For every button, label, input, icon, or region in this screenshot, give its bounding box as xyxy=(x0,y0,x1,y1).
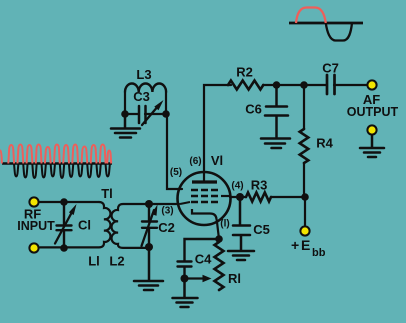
svg-text:L2: L2 xyxy=(109,254,124,269)
svg-text:R4: R4 xyxy=(316,136,333,151)
svg-text:C7: C7 xyxy=(322,61,339,76)
svg-text:(4): (4) xyxy=(231,181,243,192)
svg-text:(5): (5) xyxy=(170,167,182,178)
svg-text:Vl: Vl xyxy=(211,153,223,168)
svg-text:C6: C6 xyxy=(245,102,262,117)
svg-text:Tl: Tl xyxy=(101,186,113,201)
svg-text:C4: C4 xyxy=(195,252,212,267)
svg-text:bb: bb xyxy=(312,247,326,259)
svg-text:C5: C5 xyxy=(253,222,270,237)
svg-text:Cl: Cl xyxy=(78,218,91,233)
svg-text:INPUT: INPUT xyxy=(17,219,55,233)
svg-text:R3: R3 xyxy=(251,178,268,193)
svg-text:R2: R2 xyxy=(236,65,253,80)
svg-text:OUTPUT: OUTPUT xyxy=(347,105,399,119)
svg-text:Rl: Rl xyxy=(228,271,241,286)
svg-text:L3: L3 xyxy=(136,67,151,82)
svg-text:(l): (l) xyxy=(220,219,229,230)
svg-text:(6): (6) xyxy=(189,156,201,167)
svg-text:C2: C2 xyxy=(158,220,175,235)
svg-text:C3: C3 xyxy=(133,89,150,104)
svg-text:(3): (3) xyxy=(161,206,173,217)
svg-text:+: + xyxy=(291,237,299,253)
svg-text:Ll: Ll xyxy=(88,254,100,269)
svg-text:E: E xyxy=(301,237,310,253)
